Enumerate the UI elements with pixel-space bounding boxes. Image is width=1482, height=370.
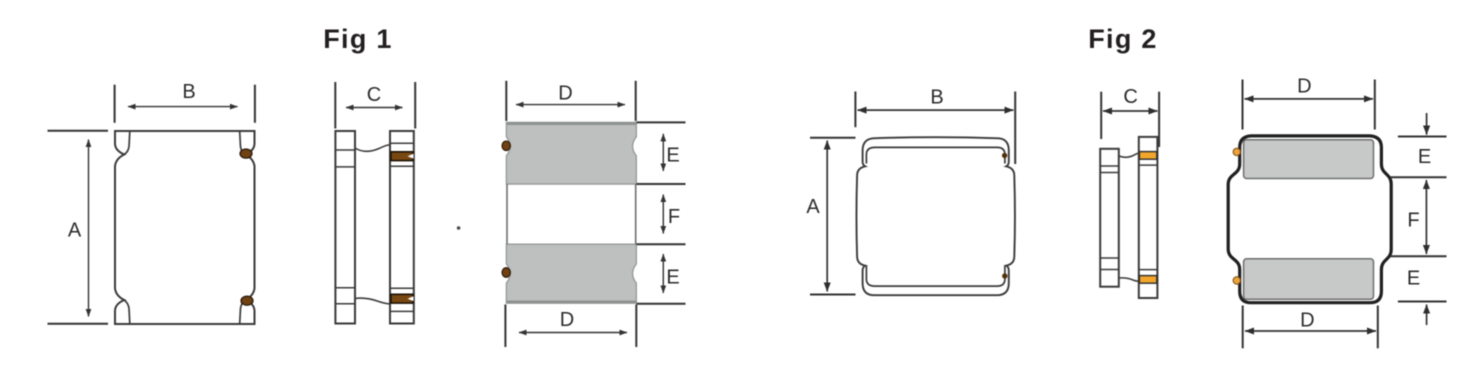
svg-text:E: E [1418,146,1431,168]
svg-text:C: C [1123,86,1137,108]
svg-text:Fig 1: Fig 1 [323,24,393,54]
svg-text:F: F [1407,210,1419,232]
svg-text:F: F [668,206,680,228]
svg-text:D: D [1300,310,1314,332]
svg-text:D: D [560,309,574,331]
svg-text:E: E [666,145,679,167]
svg-text:C: C [367,84,381,106]
svg-text:E: E [666,267,679,289]
svg-text:A: A [68,220,82,242]
svg-text:D: D [558,83,572,105]
svg-text:A: A [806,196,820,218]
svg-text:B: B [930,87,943,109]
svg-text:B: B [182,81,195,103]
svg-text:E: E [1407,268,1420,290]
svg-text:Fig 2: Fig 2 [1088,24,1158,54]
svg-text:D: D [1297,76,1311,98]
